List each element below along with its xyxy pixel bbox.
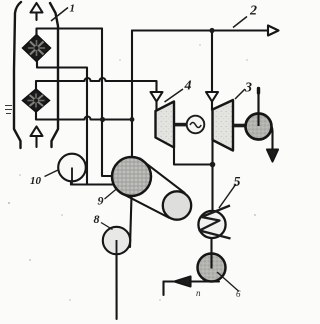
shaft turbine3-load [233,124,247,128]
turbine 3 [213,100,234,151]
junction dot at (212,30.5) [209,28,214,33]
wire turbine 4 outlet down and right [174,148,213,165]
svg-text:3: 3 [244,81,252,96]
arrow air inlet up (bottom of duct) [31,127,43,148]
wire pump 6 bottom line with left filled arrow [164,280,220,282]
cooler diamond 1 [23,35,51,62]
air intake duct left wall [14,2,21,148]
label 5 [219,175,241,208]
pump 8 stem [116,240,118,255]
svg-text:5: 5 [234,175,241,190]
svg-text:4: 4 [184,79,192,94]
wire arrow stem into turbine 4 inlet [155,102,157,112]
wire arrow stem into turbine 3 inlet [211,102,213,111]
label 1 [51,3,75,22]
heat exchanger 5 [198,206,230,239]
wire diamond1 bottom, right, down x=87.5 [37,62,87,185]
junction dot at (102.5,119.5) [100,117,105,122]
wire fan 10 stem [70,168,72,185]
svg-text:6: 6 [236,289,241,299]
wire diamond1 top riser to top-left header [37,29,103,35]
svg-text:8: 8 [94,212,100,226]
wire heat exchanger 5 to pump 6 [210,239,212,268]
open arrow right (net 2) [268,26,279,36]
compressor 9 circle [112,157,151,196]
pump 6 circle [198,254,226,282]
wire stub down at left end [162,282,164,296]
pump 8 circle [103,227,130,254]
wire compressor 9 bottom to pump 8 [130,196,132,247]
pulley circle [163,191,191,219]
label 10 [30,170,59,188]
shaft turbine4-generator [174,123,188,127]
pump 6 inlet stem [210,254,212,269]
svg-text:10: 10 [30,175,42,187]
wire vertical x=212 down to arrow over turbine 3 [211,31,213,93]
wire turbine 3 outlet down [211,140,213,165]
wire vertical x=102 down to compressor 9 left [102,29,112,177]
wire load circle out, down to filled arrow [272,127,273,150]
arrow down open (above turbine 4) [151,92,163,102]
air intake duct right wall [50,3,58,147]
label 4 [165,79,192,103]
svg-text:1: 1 [70,3,76,15]
label 2 [233,4,257,28]
svg-text:2: 2 [249,4,257,19]
label 6 [217,272,241,299]
load circle (driven machine) [246,114,272,140]
junction dot at (132,119.5) [130,117,135,122]
arrow down filled [267,150,278,162]
wire into load circle top [257,90,259,114]
label 9 [98,189,118,208]
arrow down open (above turbine 3) [206,92,218,102]
wire diamond2 bottom along y=119.5 with hop to x=132 [36,112,132,120]
wire junction down to heat exchanger 5 [211,165,213,212]
tiny marginal text [5,106,12,114]
svg-text:n: n [196,288,201,298]
svg-text:9: 9 [98,194,104,208]
wire top-right header to outlet arrow 2 [132,29,268,31]
wire bottom horizontal into compressor 9 lower-left [71,183,115,185]
arrow left filled [175,277,191,287]
label 8 [94,212,113,230]
cooler diamond 2 [23,89,50,112]
wire vertical x=132 from top header down to compressor 9 top [131,31,133,158]
belt drive [121,160,185,218]
wire pump 8 stem down [115,241,117,320]
turbine 4 [156,102,175,148]
generator U [187,116,205,134]
arrow exhaust up (top of duct) [31,3,43,20]
junction dot at (212.5,164.5) [210,162,216,168]
wire diamond2 top, right along y=81 with hops, down to arrow over turbine 4 [36,78,157,92]
fan 10 circle [58,154,86,182]
label 3 [235,81,252,100]
